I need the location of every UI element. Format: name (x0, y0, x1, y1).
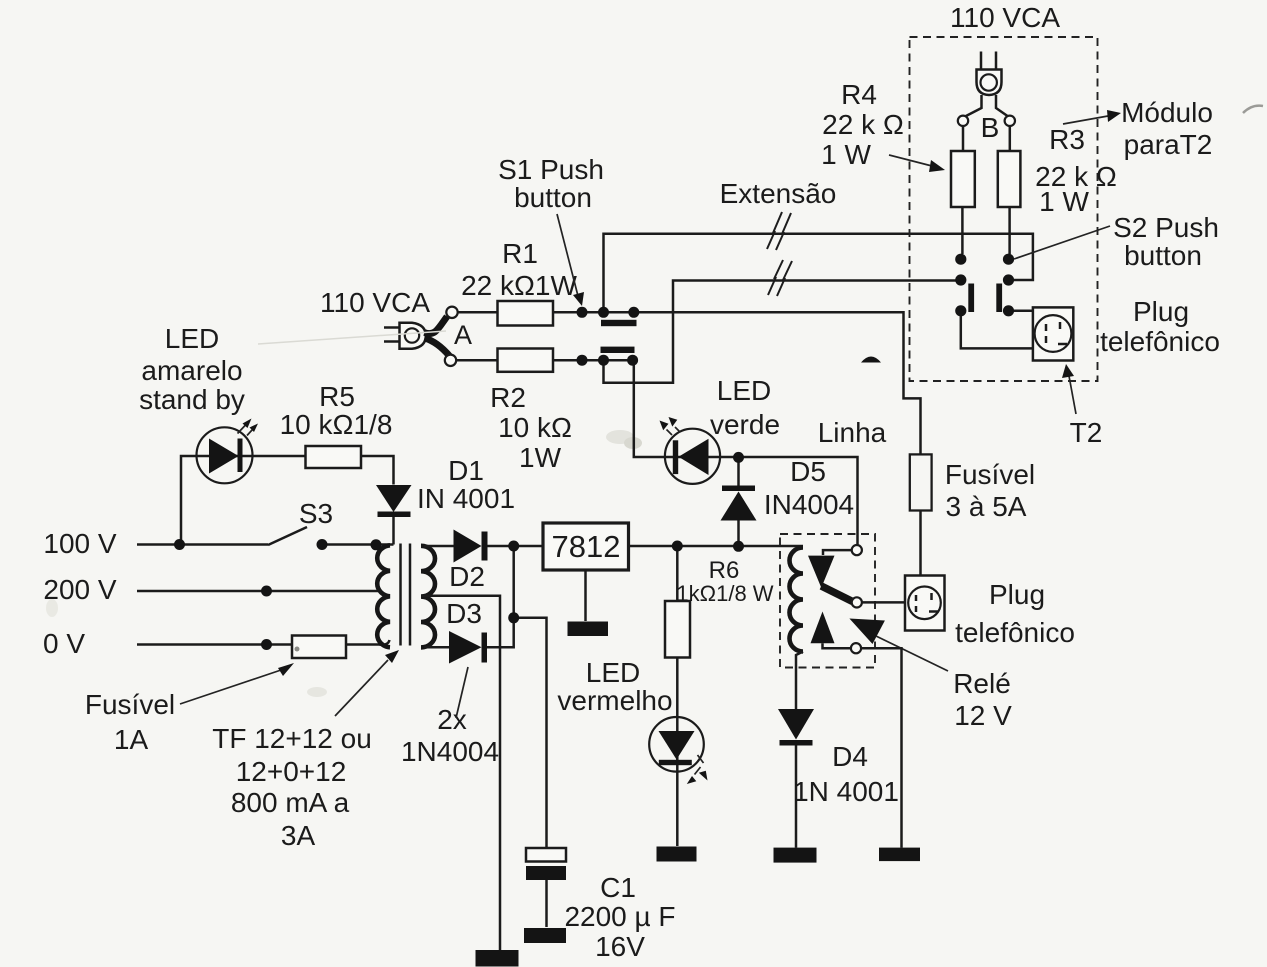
svg-text:T2: T2 (1070, 417, 1103, 448)
svg-text:2200 µ F: 2200 µ F (564, 901, 675, 932)
svg-text:22 kΩ1W: 22 kΩ1W (461, 270, 577, 301)
switch S1 label arrow (557, 214, 578, 296)
resistor R4 (951, 151, 975, 207)
plug A body (400, 323, 426, 349)
ground G4 (879, 848, 920, 862)
svg-text:Relé: Relé (953, 668, 1011, 699)
svg-text:R5: R5 (319, 381, 355, 412)
wire S1 to LED verde (634, 360, 739, 457)
wire S1 to line fuse (634, 312, 921, 454)
svg-text:Fusível: Fusível (85, 689, 175, 720)
ground G5 (476, 950, 519, 967)
svg-text:1 W: 1 W (1039, 186, 1089, 217)
svg-text:S2 Push: S2 Push (1113, 212, 1219, 243)
svg-text:Plug: Plug (989, 579, 1045, 610)
transformer core (399, 544, 402, 646)
wire S2 right to plug T2 (1009, 310, 1033, 313)
svg-text:200 V: 200 V (43, 574, 116, 605)
svg-text:Fusível: Fusível (945, 459, 1035, 490)
fuse F1 1A (292, 636, 346, 659)
wire 100V rail (137, 543, 268, 546)
svg-text:Módulo: Módulo (1121, 97, 1213, 128)
2x label line (456, 667, 468, 718)
wire Extensao top (604, 234, 1033, 312)
transformer TF primary coil (377, 545, 390, 647)
ground G6 (524, 928, 566, 943)
wire node to C1 (514, 618, 547, 848)
diode D1 (376, 485, 412, 512)
plug B prongs (981, 52, 996, 71)
svg-text:LED: LED (586, 657, 640, 688)
wire Extensao bottom (604, 281, 956, 383)
wire 0V rail to transformer (346, 640, 390, 645)
LED vermelho (649, 717, 704, 772)
wire A2 to R2 (456, 359, 497, 362)
svg-text:Linha: Linha (818, 417, 887, 448)
LED vermelho light arrows (695, 767, 701, 775)
wire A1 to R1 (458, 311, 498, 314)
svg-text:TF 12+12 ou: TF 12+12 ou (212, 723, 372, 754)
wire B1 to R4 (962, 126, 965, 151)
switch S2 left button bar (968, 284, 974, 313)
svg-text:D4: D4 (832, 741, 868, 772)
wire LED verde to Linha (739, 457, 858, 545)
wire secondary top to D2 (424, 545, 454, 548)
switch S1 contact bar bottom (601, 347, 635, 353)
faint scan line (258, 331, 446, 344)
wire R5 to D1 (361, 456, 394, 485)
plug B body (977, 70, 1002, 96)
squiggle mark (1243, 106, 1263, 113)
stray mark (861, 357, 881, 363)
svg-text:1N 4001: 1N 4001 (793, 776, 899, 807)
svg-text:IN4004: IN4004 (764, 489, 854, 520)
svg-text:10 kΩ1/8: 10 kΩ1/8 (280, 409, 393, 440)
plug A prongs (384, 328, 399, 342)
relay coil (790, 548, 804, 652)
svg-text:D5: D5 (790, 456, 826, 487)
relay pointer arrowhead (849, 619, 885, 645)
relay contact terminals (852, 545, 862, 555)
svg-text:1A: 1A (114, 724, 149, 755)
svg-text:1N4004: 1N4004 (401, 736, 499, 767)
svg-text:amarelo: amarelo (141, 355, 242, 386)
svg-text:R4: R4 (841, 79, 877, 110)
wire LED amarelo left leg (181, 456, 306, 545)
svg-text:D2: D2 (449, 561, 485, 592)
svg-text:stand by: stand by (139, 384, 245, 415)
LED amarelo light arrows (238, 425, 247, 434)
wire 0V rail (137, 643, 292, 646)
wire coil to D4 (796, 652, 803, 710)
svg-text:22 k Ω: 22 k Ω (822, 109, 904, 140)
switch S2 right button bar (996, 284, 1002, 313)
plug telefonico T2 box (1033, 307, 1073, 360)
fuse F2 3-5A (910, 454, 932, 510)
LED verde (665, 429, 720, 484)
svg-text:16V: 16V (595, 931, 645, 962)
plug B leads (965, 95, 1008, 117)
svg-text:R2: R2 (490, 382, 526, 413)
wire D3 up to rail (487, 546, 514, 647)
resistor R1 (498, 301, 554, 326)
svg-text:S3: S3 (299, 498, 333, 529)
resistor R5 (306, 446, 362, 468)
diode D2 (454, 530, 482, 563)
svg-text:2x: 2x (437, 704, 467, 735)
wire 7812 ground (584, 570, 587, 621)
svg-text:R1: R1 (502, 238, 538, 269)
wire 7812 output rail (629, 545, 804, 548)
wire break marks bottom (768, 260, 783, 295)
ground G1 (568, 622, 609, 637)
svg-text:12+0+12: 12+0+12 (236, 756, 347, 787)
svg-text:LED: LED (717, 375, 771, 406)
S2 label line (1014, 226, 1110, 259)
svg-text:3 à 5A: 3 à 5A (946, 491, 1027, 522)
svg-text:vermelho: vermelho (557, 685, 672, 716)
plug A cords (425, 317, 448, 334)
svg-text:D1: D1 (448, 455, 484, 486)
capacitor C1 (526, 848, 566, 862)
wire 200V rail (137, 590, 380, 593)
resistor R2 (498, 349, 554, 372)
wire relay common to plug (862, 601, 905, 604)
node B terminals (958, 116, 968, 126)
LED verde light arrows (667, 430, 673, 436)
wire 100V rail right of S3 (322, 543, 394, 546)
svg-text:110 VCA: 110 VCA (950, 2, 1060, 33)
transformer label arrow (335, 660, 388, 716)
diode D3 (449, 631, 482, 664)
svg-text:telefônico: telefônico (955, 617, 1075, 648)
svg-text:B: B (981, 112, 1000, 143)
resistor R6 (676, 546, 679, 601)
svg-text:D3: D3 (446, 598, 482, 629)
R4 label arrow (889, 155, 932, 166)
switch S3 arm (268, 527, 307, 545)
svg-text:3A: 3A (281, 820, 316, 851)
T2 arrow (1069, 376, 1076, 414)
ground G2 (657, 847, 697, 862)
diode D4 (778, 709, 814, 740)
wire R1 to S1 (553, 311, 634, 314)
plug telefonico 2 box (905, 576, 945, 631)
wire break marks top (767, 212, 782, 249)
svg-text:Extensão: Extensão (720, 178, 837, 209)
wire R4 to S2 (961, 207, 964, 254)
svg-text:R3: R3 (1049, 124, 1085, 155)
svg-text:button: button (514, 182, 592, 213)
wire B2 to R3 (1009, 126, 1012, 151)
wire S2 left to plug T2 (961, 311, 1033, 349)
transformer TF secondary coil (421, 546, 435, 648)
svg-text:1kΩ1/8 W: 1kΩ1/8 W (676, 581, 773, 606)
fusivel 1A arrow (180, 669, 284, 704)
scan smudges (606, 430, 634, 444)
ground G3 (774, 848, 817, 863)
svg-text:IN 4001: IN 4001 (417, 483, 515, 514)
wire R3 to S2 (1008, 207, 1011, 254)
svg-text:100 V: 100 V (43, 528, 116, 559)
svg-text:paraT2: paraT2 (1124, 129, 1213, 160)
svg-text:800 mA a: 800 mA a (231, 787, 350, 818)
switch S1 contact bar top (601, 320, 637, 326)
diode D5 (737, 457, 740, 486)
node A terminals (446, 307, 457, 318)
svg-text:1 W: 1 W (821, 139, 871, 170)
relay NC contact arrow (811, 612, 835, 644)
relay armature arrow (823, 550, 852, 555)
svg-text:10 kΩ: 10 kΩ (498, 412, 572, 443)
svg-text:telefônico: telefônico (1100, 326, 1220, 357)
svg-text:110 VCA: 110 VCA (320, 287, 430, 318)
svg-text:Plug: Plug (1133, 296, 1189, 327)
svg-text:A: A (454, 320, 472, 350)
wire center tap (421, 596, 500, 950)
Modulo arrow (1063, 116, 1108, 124)
wire R2 to S1 (553, 359, 633, 362)
svg-text:verde: verde (710, 409, 780, 440)
regulator U1 7812 (543, 523, 629, 570)
LED amarelo D_am (197, 427, 253, 483)
svg-text:7812: 7812 (552, 529, 621, 564)
wire relay NO to ground (861, 648, 901, 847)
svg-text:C1: C1 (600, 872, 636, 903)
svg-text:LED: LED (165, 323, 219, 354)
relay K1 dashed box (780, 534, 875, 668)
svg-text:button: button (1124, 240, 1202, 271)
svg-text:R6: R6 (709, 557, 740, 584)
svg-text:1W: 1W (519, 442, 562, 473)
wire D2 to 7812 (488, 545, 544, 548)
svg-text:S1 Push: S1 Push (498, 154, 604, 185)
svg-text:0 V: 0 V (43, 628, 85, 659)
resistor R3 (998, 151, 1021, 207)
wire secondary bottom to D3 (424, 646, 449, 649)
module T2 dashed box (910, 37, 1098, 381)
svg-text:12 V: 12 V (954, 700, 1012, 731)
fuse mark (295, 647, 300, 652)
wire R6 to LED vermelho (676, 658, 679, 847)
